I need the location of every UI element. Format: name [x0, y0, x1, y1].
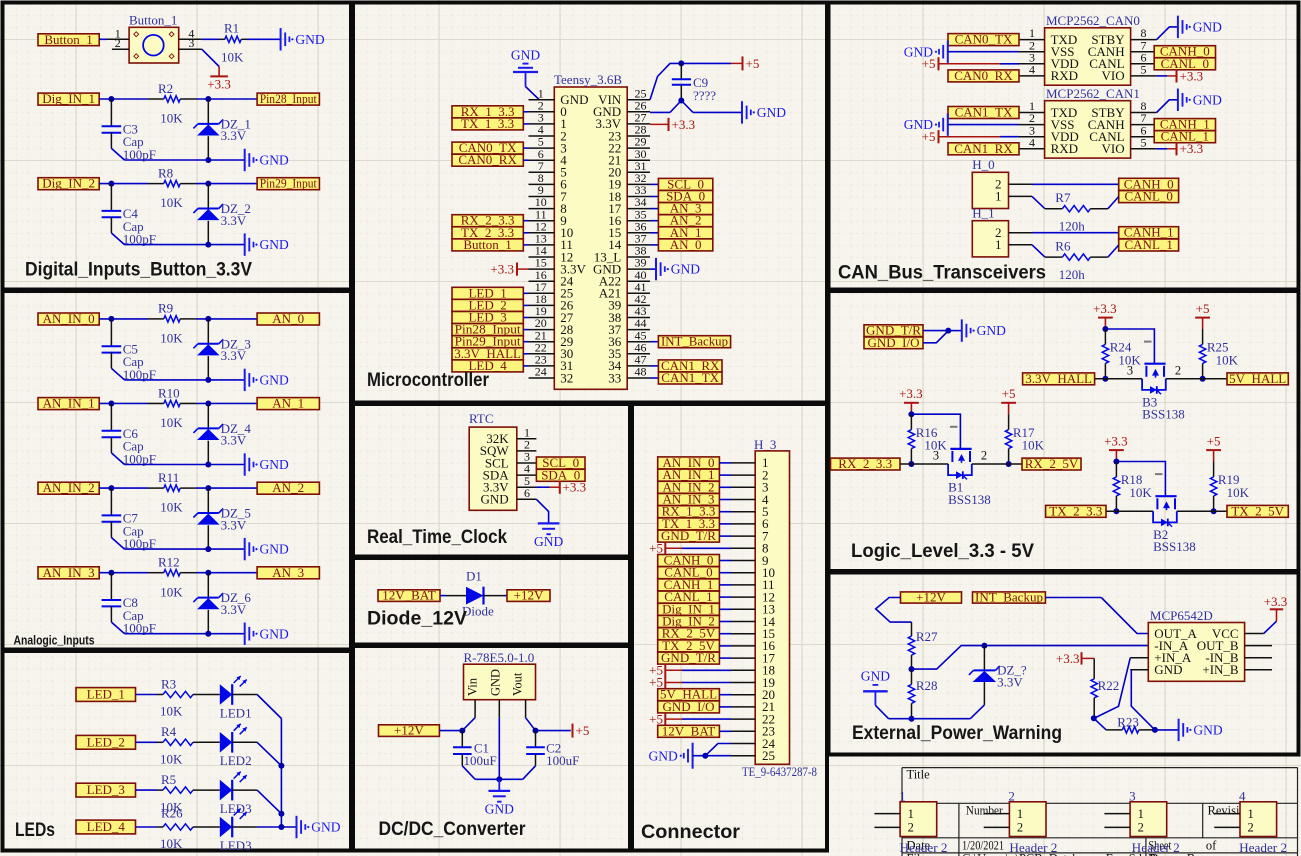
port CANL_0 (header) — [1119, 189, 1179, 204]
port AN_IN_1 — [38, 396, 99, 411]
pin label 2 (B3) — [1175, 363, 1181, 377]
port AN_1 — [257, 396, 319, 411]
wire VCC to +3.3 — [1245, 621, 1277, 633]
section title DC/DC_Converter — [379, 819, 527, 840]
Teensy left pins 1-24 — [529, 86, 589, 385]
wire R10 to AN_1 — [196, 403, 257, 405]
power port GND (Teensy pin26) — [742, 101, 786, 123]
pin 2 of Button_1 — [112, 36, 129, 50]
port LED_3 — [76, 782, 136, 797]
svg-text:+5: +5 — [576, 723, 590, 738]
svg-text:CAN_Bus_Transceivers: CAN_Bus_Transceivers — [838, 263, 1046, 284]
power port GND (Teensy pin1) — [511, 48, 540, 87]
svg-text:+3.3: +3.3 — [672, 117, 696, 132]
sheet-symbol border Digital_Inputs_Button_3.3V — [3, 3, 352, 290]
svg-text:Analogic_Inputs: Analogic_Inputs — [14, 633, 95, 648]
junction R28 bottom — [909, 716, 915, 722]
svg-text:DC/DC_Converter: DC/DC_Converter — [379, 819, 527, 840]
svg-text:R11: R11 — [158, 470, 179, 485]
svg-text:Header 2: Header 2 — [1009, 840, 1057, 855]
svg-text:Real_Time_Clock: Real_Time_Clock — [367, 527, 507, 548]
svg-text:GND: GND — [511, 48, 540, 63]
power port +3.3 (button) — [207, 76, 231, 91]
svg-text:25: 25 — [762, 748, 775, 763]
junction zener-ground — [205, 546, 211, 552]
svg-text:5: 5 — [1141, 63, 1147, 77]
svg-text:2: 2 — [1017, 821, 1023, 835]
resistor R27 — [908, 622, 938, 669]
diode D1 — [446, 569, 504, 619]
svg-text:R28: R28 — [916, 678, 938, 693]
svg-text:LED3: LED3 — [220, 838, 252, 853]
title block label Date — [907, 839, 931, 853]
port +12V (diode) — [507, 588, 550, 603]
regulator pin Vin — [474, 700, 476, 718]
section title Diode_12V — [367, 609, 467, 630]
junction DZ node — [981, 643, 987, 649]
svg-text:5V_HALL: 5V_HALL — [1229, 371, 1286, 386]
svg-text:INT_Backup: INT_Backup — [661, 334, 728, 349]
svg-text:10K: 10K — [160, 195, 183, 210]
svg-text:AN_IN_2: AN_IN_2 — [43, 480, 95, 495]
svg-text:10K: 10K — [160, 704, 183, 719]
svg-text:Diode_12V: Diode_12V — [367, 609, 467, 630]
port CAN1_RX — [948, 141, 1019, 156]
capacitor C8 — [102, 573, 156, 636]
pin label 3 (B3) — [1127, 363, 1133, 377]
svg-text:GND: GND — [260, 373, 289, 388]
svg-text:R6: R6 — [1055, 239, 1071, 254]
wire LED2 cathode diagonal — [257, 742, 281, 766]
power port +3.3 (R22) — [1056, 651, 1094, 666]
wire LED_3 to R5 — [136, 789, 158, 791]
svg-text:GND: GND — [1193, 92, 1222, 107]
svg-text:AN_0: AN_0 — [670, 237, 702, 252]
wire LED_4 to R26 — [136, 826, 158, 828]
svg-text:TX_2_5V: TX_2_5V — [1231, 503, 1284, 518]
svg-text:R3: R3 — [161, 676, 176, 691]
wire GND_T/R to gnd node — [923, 330, 948, 332]
svg-text:3.3V: 3.3V — [221, 433, 247, 448]
port SCL_0 (Teensy right) — [650, 176, 713, 191]
svg-text:Logic_Level_3.3 - 5V: Logic_Level_3.3 - 5V — [851, 541, 1034, 562]
RTC chip U — [469, 411, 517, 510]
wire RX_2_3.3 to transistor — [900, 463, 948, 465]
svg-text:AN_3: AN_3 — [272, 565, 304, 580]
MCP2562_CAN1 pins — [1019, 99, 1157, 156]
junction at DZ_6 — [205, 570, 211, 576]
svg-text:CAN0_RX: CAN0_RX — [458, 152, 517, 167]
power port GND (CAN0 VSS) — [904, 41, 1019, 63]
MCP2562_CAN0 pins — [1019, 26, 1157, 83]
resistor R9 — [148, 301, 196, 346]
title block label of — [1206, 839, 1217, 853]
power port +5 (B2) — [1206, 433, 1221, 461]
resistor R4 — [157, 724, 199, 766]
capacitor C6 — [102, 404, 156, 467]
resistor R18 — [1113, 462, 1152, 512]
svg-text:INT_Backup: INT_Backup — [975, 590, 1043, 605]
svg-text:2: 2 — [1248, 821, 1254, 835]
svg-text:AN_2: AN_2 — [272, 480, 304, 495]
svg-text:GND: GND — [295, 32, 324, 47]
wire R7 to CANL_0 — [1108, 197, 1119, 209]
pin label 3 (B1) — [933, 449, 939, 463]
port CAN0_RX (Teensy pin 6) — [452, 152, 529, 167]
capacitor C9 — [672, 63, 717, 103]
wire CAN1 STBY to GND — [1157, 100, 1178, 113]
port CANL_0 (chip) — [1154, 56, 1215, 71]
wire AN_IN_1 to R10 — [99, 403, 148, 405]
svg-text:3.3V: 3.3V — [221, 517, 247, 532]
wire R11 to AN_2 — [196, 487, 257, 489]
junction gnd rail — [496, 776, 502, 782]
resistor R28 — [908, 669, 937, 719]
junction GND pins24-25 — [702, 753, 708, 759]
junction zener-ground — [205, 462, 211, 468]
title block label Revision — [1208, 804, 1253, 818]
resistor R8 — [148, 165, 196, 210]
port CAN0_TX (Teensy pin 5) — [452, 140, 529, 155]
svg-text:+3.3: +3.3 — [1104, 433, 1128, 448]
svg-text:+5: +5 — [922, 56, 936, 71]
title block label Number — [966, 804, 1004, 818]
svg-text:VIO: VIO — [1101, 141, 1124, 156]
capacitor C3 — [102, 99, 156, 162]
power port GND DZ_3 — [245, 369, 289, 391]
svg-text:100uF: 100uF — [464, 753, 497, 768]
junction at DZ_3 — [205, 316, 211, 322]
resistor R10 — [148, 385, 196, 430]
junction zener-ground — [205, 242, 211, 248]
wire GND pin down — [498, 718, 500, 780]
section title Real_Time_Clock — [367, 527, 507, 548]
svg-text:GND_T/R: GND_T/R — [661, 650, 716, 665]
svg-text:GND_I/O: GND_I/O — [663, 699, 715, 714]
wire INT_Backup to OUT_A — [1045, 598, 1148, 634]
svg-text:+3.3: +3.3 — [1180, 141, 1204, 156]
port Pin28_Input — [257, 91, 319, 106]
resistor R2 — [148, 81, 196, 126]
svg-text:Pin29_Input: Pin29_Input — [260, 176, 317, 191]
port CANH_0 (chip) — [1154, 44, 1215, 59]
port GND_T/R (H_3 pin 7) — [658, 528, 731, 543]
wire R23 to GND — [1155, 729, 1179, 731]
wire H_1 pin1 to R6 — [1032, 245, 1045, 257]
svg-text:Vin: Vin — [466, 677, 480, 696]
svg-text:GND: GND — [757, 105, 786, 120]
power port +3.3 (RTC) — [536, 480, 586, 495]
svg-text:32: 32 — [560, 370, 573, 385]
power port +5 (H_3 pin 22) — [649, 711, 731, 726]
power port +5 (B3) — [1195, 301, 1210, 329]
svg-text:GND: GND — [260, 542, 289, 557]
svg-text:10K: 10K — [160, 331, 183, 346]
svg-text:Header 2: Header 2 — [900, 840, 948, 855]
power port +5 (H_3 pin 8) — [649, 541, 731, 556]
svg-text:Teensy_3.6B: Teensy_3.6B — [554, 72, 622, 87]
port CANH_1 (H_3 pin 11) — [658, 577, 731, 592]
svg-text:6: 6 — [524, 486, 530, 500]
wire Teensy GND pin40 to GND — [650, 268, 656, 270]
port CANH_1 (header) — [1119, 225, 1179, 240]
wire C1 to gnd rail — [462, 766, 499, 780]
svg-text:+5: +5 — [1196, 301, 1210, 316]
svg-text:GND: GND — [488, 669, 502, 696]
junction R22 bottom — [1091, 715, 1097, 721]
svg-text:10K: 10K — [160, 415, 183, 430]
port SDA_0 (Teensy right) — [650, 189, 713, 204]
port GND_I/O (H_3 pin 21) — [658, 699, 731, 714]
power port GND (CAN1 VSS) — [904, 113, 1019, 135]
junction at DZ_1 — [205, 96, 211, 102]
port TX_1_3.3 (Teensy pin 3) — [452, 116, 529, 131]
svg-text:10K: 10K — [1227, 485, 1250, 500]
svg-text:+IN_B: +IN_B — [1202, 662, 1239, 677]
header Header 2 (#3) — [1104, 789, 1166, 837]
wire transistor to RX_2_5V — [972, 463, 1022, 465]
header Header 2 (#4) — [1214, 789, 1276, 837]
svg-text:12V_BAT: 12V_BAT — [382, 588, 436, 603]
svg-text:3: 3 — [933, 449, 939, 463]
transistor B1 BSS138 — [948, 427, 991, 507]
section title CAN_Bus_Transceivers — [838, 263, 1046, 284]
capacitor C4 — [102, 184, 156, 247]
svg-text:+5: +5 — [1207, 433, 1221, 448]
port LED_4 — [76, 819, 136, 834]
svg-text:R-78E5.0-1.0: R-78E5.0-1.0 — [464, 650, 535, 665]
power port GND (dcdc) — [485, 779, 514, 816]
port 12V_BAT (diode) — [378, 588, 440, 603]
svg-text:+3.3: +3.3 — [1264, 594, 1288, 609]
wire LED common vertical — [280, 719, 282, 828]
junction Vin node — [459, 728, 465, 734]
wire Button_1 port to pin 1 — [99, 38, 107, 40]
connector H_3 — [754, 437, 790, 764]
header H_0 — [972, 157, 1032, 208]
svg-text:1/20/2021: 1/20/2021 — [962, 839, 1004, 853]
svg-text:2: 2 — [1138, 821, 1144, 835]
svg-text:10K: 10K — [160, 500, 183, 515]
port CANL_1 (chip) — [1154, 129, 1215, 144]
port CANH_1 (chip) — [1154, 117, 1215, 132]
junction R27-R28 — [909, 666, 915, 672]
port AN_1 (Teensy right) — [650, 225, 713, 240]
wire Dig_IN_2 to R8 — [99, 183, 148, 185]
junction LED4-common — [278, 824, 284, 830]
wire 3.3V_HALL to transistor — [1095, 378, 1143, 380]
svg-text:1: 1 — [995, 189, 1002, 204]
svg-text:GND: GND — [260, 457, 289, 472]
svg-text:R26: R26 — [161, 806, 183, 821]
port 12V_BAT (H_3 pin 23) — [658, 723, 731, 738]
resistor R5 — [157, 772, 199, 814]
port RX_2_3.3 (Teensy pin 11) — [452, 213, 529, 228]
power port GND (extern) — [861, 669, 890, 706]
svg-text:Button_1: Button_1 — [463, 237, 511, 252]
resistor R12 — [148, 555, 196, 600]
svg-text:100uF: 100uF — [546, 753, 579, 768]
transistor B2 BSS138 — [1153, 474, 1196, 554]
pushbutton Button_1 — [129, 13, 179, 63]
port INT_Backup (extern) — [973, 590, 1046, 605]
power port +3.3 (B2) — [1104, 433, 1128, 461]
svg-text:Pin28_Input: Pin28_Input — [260, 91, 317, 106]
svg-text:2: 2 — [1175, 363, 1181, 377]
svg-text:10K: 10K — [160, 752, 183, 767]
resistor R16 — [908, 414, 947, 464]
pin 4 of Button_1 — [179, 26, 202, 40]
power port GND (CAN1 STBY) — [1178, 89, 1222, 111]
label Header 2 text (#4) — [1239, 840, 1287, 855]
LED LED3 (row 3) — [199, 772, 252, 816]
svg-text:MCP2562_CAN0: MCP2562_CAN0 — [1046, 13, 1140, 28]
svg-text:Dig_IN_2: Dig_IN_2 — [42, 176, 95, 191]
sheet-symbol border Microcontroller — [353, 3, 827, 403]
port LED_4 (Teensy pin 23) — [452, 358, 529, 373]
svg-text:CAN0_RX: CAN0_RX — [954, 68, 1013, 83]
wire C5 to ground rail — [111, 368, 244, 380]
svg-text:24: 24 — [535, 365, 547, 379]
section title Logic_Level_3.3-5V — [851, 541, 1034, 562]
transceiver U MCP2562_CAN0 — [1045, 13, 1140, 85]
power port +3.3 (CAN1 VIO) — [1157, 141, 1203, 156]
svg-text:10K: 10K — [1216, 352, 1239, 367]
label Header 2 text (#1) — [900, 840, 948, 855]
svg-text:R12: R12 — [158, 555, 180, 570]
svg-text:AN_IN_1: AN_IN_1 — [43, 396, 95, 411]
wire Vout to +5 node — [526, 718, 571, 731]
port CANL_1 (header) — [1119, 237, 1179, 252]
resistor R7 — [1045, 190, 1108, 212]
zener diode DZ_4 — [193, 404, 251, 465]
svg-text:Button_1: Button_1 — [129, 13, 177, 28]
power port GND DZ_5 — [245, 538, 289, 560]
junction at C input C8 — [108, 570, 114, 576]
svg-text:R10: R10 — [158, 385, 180, 400]
Teensy right pins 25-48 — [593, 86, 650, 385]
svg-text:Number: Number — [966, 804, 1004, 818]
svg-text:R1: R1 — [224, 21, 239, 36]
port GND_I/O (logic) — [864, 335, 923, 350]
svg-text:Vout: Vout — [511, 672, 525, 696]
zener diode DZ_6 — [193, 573, 251, 634]
svg-text:3: 3 — [188, 36, 194, 50]
svg-text:AN_0: AN_0 — [272, 311, 304, 326]
LED LED2 (row 2) — [199, 724, 252, 768]
svg-text:AN_1: AN_1 — [272, 396, 304, 411]
svg-text:R5: R5 — [161, 772, 176, 787]
svg-text:CAN1_RX: CAN1_RX — [954, 141, 1013, 156]
transistor B3 BSS138 — [1142, 342, 1185, 422]
sheet-symbol border CAN_Bus_Transceivers — [829, 3, 1299, 290]
port 3.3V_HALL — [1023, 371, 1095, 386]
section title Connector — [641, 822, 741, 843]
port Dig_IN_1 (H_3 pin 13) — [658, 601, 731, 616]
wire C9 bottom to pin26 — [650, 101, 681, 113]
svg-text:of: of — [1206, 839, 1217, 853]
svg-text:+3.3: +3.3 — [490, 261, 514, 276]
svg-text:R27: R27 — [916, 629, 938, 644]
capacitor C7 — [102, 488, 156, 551]
port TX_2_5V (H_3 pin 16) — [658, 638, 731, 653]
port LED_1 (Teensy pin 17) — [452, 285, 529, 300]
svg-text:+3.3: +3.3 — [899, 386, 923, 401]
svg-text:+3.3: +3.3 — [1180, 68, 1204, 83]
port 5V_HALL (H_3 pin 20) — [658, 687, 731, 702]
svg-text:AN_IN_3: AN_IN_3 — [43, 565, 95, 580]
port AN_3 (Teensy right) — [650, 201, 713, 216]
LED LED3 (row 4) — [199, 809, 252, 853]
wire GND_I/O to gnd node — [923, 331, 948, 343]
svg-text:R9: R9 — [158, 301, 173, 316]
svg-text:GND: GND — [485, 801, 514, 816]
wire GND to bottom rail — [875, 705, 911, 718]
svg-text:5: 5 — [1141, 135, 1147, 149]
port +12V (dcdc) — [379, 723, 440, 738]
power port GND DZ_1 — [245, 149, 289, 171]
svg-text:GND: GND — [977, 323, 1006, 338]
power port +5 (CAN0 VDD) — [922, 56, 1019, 71]
svg-text:3.3V_HALL: 3.3V_HALL — [1025, 371, 1092, 386]
port AN_IN_3 (H_3 pin 4) — [658, 492, 731, 507]
power port +3.3 (B3) — [1093, 301, 1117, 329]
junction R19 bottom — [1211, 508, 1217, 514]
port Pin28_Input (Teensy pin 20) — [452, 322, 529, 337]
wire gnd node to GND — [948, 330, 962, 332]
svg-text:48: 48 — [635, 365, 647, 379]
resistor R23 — [1106, 715, 1155, 734]
wire pin3 to +3.3 — [202, 49, 219, 76]
zener diode DZ_5 — [193, 488, 251, 549]
svg-text:Header 2: Header 2 — [1132, 840, 1180, 855]
power port +5 (H_3 pin 19) — [649, 675, 731, 690]
power port GND (R23) — [1179, 719, 1223, 741]
section title Analogic_Inputs — [14, 633, 95, 648]
junction Vout node — [533, 728, 539, 734]
svg-text:+12V: +12V — [514, 588, 544, 603]
svg-text:TE_9-6437287-8: TE_9-6437287-8 — [742, 765, 817, 779]
svg-text:10K: 10K — [1129, 485, 1152, 500]
svg-text:120h: 120h — [1059, 219, 1086, 234]
sheet-symbol border Connector — [632, 404, 827, 851]
value label 120h (R7) — [1059, 219, 1086, 234]
svg-text:+12V: +12V — [394, 723, 424, 738]
svg-text:GND: GND — [260, 237, 289, 252]
svg-text:3: 3 — [1127, 363, 1133, 377]
power port GND DZ_6 — [245, 623, 289, 645]
svg-text:MCP2562_CAN1: MCP2562_CAN1 — [1046, 86, 1140, 101]
wire C8 to ground rail — [111, 622, 244, 634]
svg-text:LEDs: LEDs — [15, 820, 55, 841]
svg-text:10K: 10K — [221, 50, 244, 65]
svg-text:H_3: H_3 — [754, 437, 776, 452]
port Button_1 — [38, 32, 99, 47]
title block file path (clipped) — [962, 852, 1174, 856]
svg-text:Title: Title — [907, 768, 931, 782]
svg-text:CAN0_TX: CAN0_TX — [955, 32, 1013, 47]
svg-text:BSS138: BSS138 — [1142, 407, 1185, 422]
port RX_2_3.3 — [831, 456, 901, 471]
svg-text:1: 1 — [1248, 807, 1254, 821]
pin label 2 (B1) — [981, 449, 987, 463]
svg-text:CANL_0: CANL_0 — [1125, 189, 1173, 204]
junction C9 bottom — [678, 98, 684, 104]
port LED_2 — [76, 734, 136, 749]
svg-text:VIO: VIO — [1101, 68, 1124, 83]
wire R8 to Pin29_Input — [196, 183, 257, 185]
junction R23-GND — [1152, 727, 1158, 733]
